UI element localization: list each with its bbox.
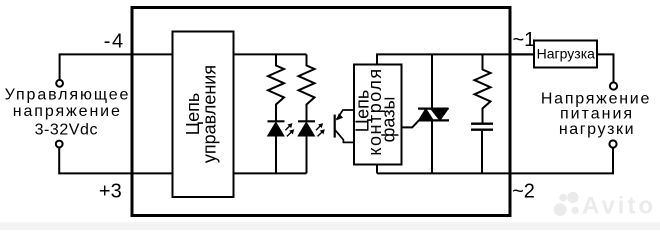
svg-text:+3: +3 — [99, 181, 122, 203]
triac T1 bottom bar — [419, 119, 450, 121]
triac T1 left triangle — [419, 109, 434, 121]
svg-text:напряжение: напряжение — [13, 103, 122, 120]
wire load box left — [510, 53, 535, 55]
svg-text:-4: -4 — [104, 31, 125, 53]
svg-text:нагрузки: нагрузки — [559, 121, 635, 138]
svg-text:~1: ~1 — [512, 29, 535, 51]
wire phase box bottom stub — [376, 165, 378, 174]
phototransistor emitter arrow head — [336, 113, 343, 120]
wire LED2 to rail — [306, 136, 308, 173]
wire LED2 cathode bar — [298, 120, 315, 122]
load box — [534, 41, 597, 68]
output caption — [541, 91, 651, 139]
input terminal 2 (plus) — [56, 141, 63, 148]
triac T1 right triangle — [431, 109, 449, 121]
avito watermark logo — [554, 192, 579, 216]
svg-text:Нагрузка: Нагрузка — [537, 46, 595, 62]
phototransistor Q1 base bar — [334, 115, 336, 138]
triac T1 top bar — [418, 107, 449, 109]
output terminal ~1 circle — [610, 82, 617, 89]
svg-text:3-32Vdc: 3-32Vdc — [35, 122, 98, 139]
LED D1 light arrows — [285, 124, 293, 137]
output terminal ~2 circle — [609, 140, 616, 147]
wire triac bottom lead — [431, 120, 433, 173]
capacitor C1 top plate — [471, 122, 493, 124]
capacitor C1 bottom plate — [471, 128, 493, 130]
wire load box to terminal ~1 — [597, 54, 614, 82]
wire bottom mid rail — [234, 172, 307, 174]
svg-text:Управляющее: Управляющее — [5, 87, 131, 104]
SSR outer box — [132, 8, 510, 216]
wire terminal1 riser — [60, 54, 173, 80]
wire triac top lead — [431, 54, 433, 109]
resistor R3 snubber — [475, 54, 491, 122]
input terminal 1 (minus) — [56, 80, 63, 87]
svg-text:питания: питания — [560, 105, 634, 122]
wire capacitor to rail — [481, 131, 483, 174]
LED D2 light arrows — [316, 124, 324, 137]
phototransistor emitter lead — [337, 110, 355, 120]
resistor R2 — [299, 54, 315, 121]
phototransistor collector lead — [335, 130, 354, 142]
resistor R1 — [268, 54, 284, 121]
wire terminal2 to bottom rail — [59, 147, 172, 173]
LED D1 triangle — [268, 122, 284, 136]
wire phase box top stub and right top rail — [377, 54, 534, 64]
control circuit box U1 — [173, 32, 234, 198]
svg-text:фазы: фазы — [378, 97, 398, 143]
wire LED1 cathode bar — [268, 120, 285, 122]
input caption — [5, 87, 131, 139]
wire bottom right rail — [377, 148, 613, 174]
svg-text:~2: ~2 — [512, 181, 535, 203]
bottom photo strip — [0, 222, 660, 230]
phase control box U2 — [354, 65, 402, 165]
wire LED1 to rail — [275, 136, 277, 173]
svg-text:управления: управления — [200, 65, 220, 163]
LED D2 triangle — [298, 122, 314, 136]
svg-text:Avito: Avito — [582, 193, 656, 220]
wire top mid rail — [234, 53, 307, 55]
wire triac gate — [402, 120, 419, 127]
